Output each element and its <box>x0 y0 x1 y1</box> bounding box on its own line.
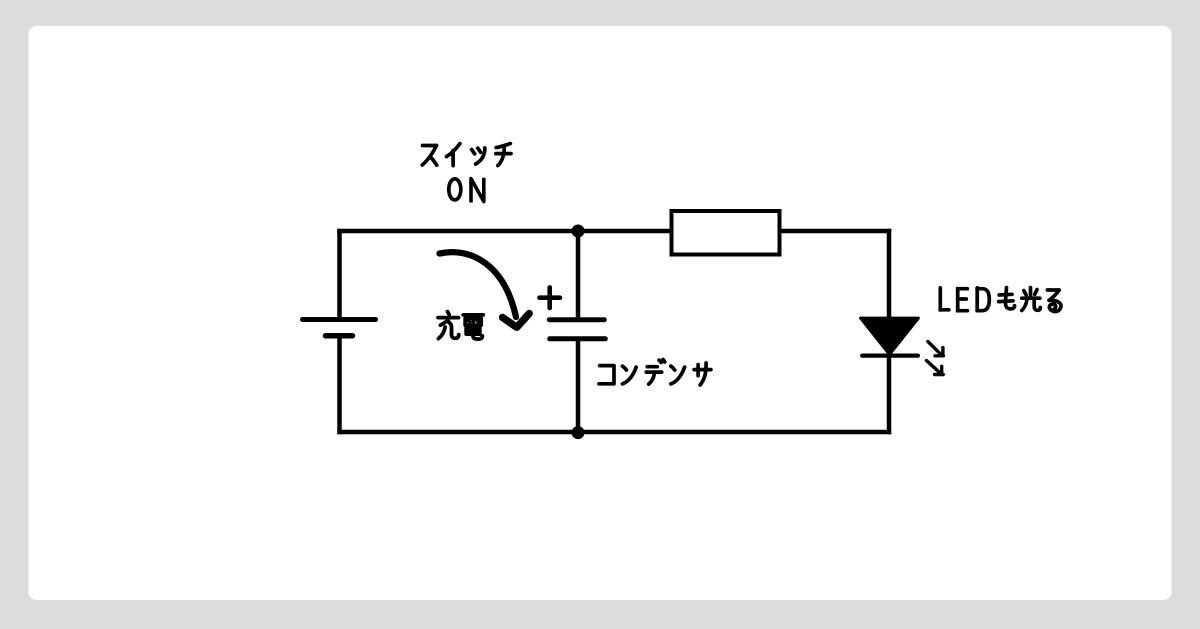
wire capacitor upper <box>576 231 581 317</box>
label "LEDも光る" (LED lights up) <box>940 288 1061 312</box>
resistor R <box>672 211 780 255</box>
LED cathode bar <box>862 354 918 358</box>
wire left lower <box>337 338 342 434</box>
battery <box>303 320 376 336</box>
charge current arrow (curved) <box>440 252 530 327</box>
capacitor polarity plus <box>540 287 561 308</box>
capacitor C (コンデンサ) <box>549 320 605 339</box>
wire right upper <box>887 229 892 320</box>
LED light ray arrow 1 <box>928 342 944 356</box>
wire bottom <box>337 430 891 435</box>
label "充電" (charging) <box>438 312 483 340</box>
LED D1 diode triangle <box>861 318 919 354</box>
node junction bottom <box>572 426 585 439</box>
wire right lower <box>887 356 892 435</box>
wire capacitor lower <box>576 341 581 432</box>
label "スイッチ" (switch) <box>422 144 511 166</box>
node junction top <box>572 225 585 238</box>
wire top <box>337 229 891 234</box>
label "コンデンサ" (capacitor) <box>599 360 711 386</box>
wire left upper <box>337 229 342 318</box>
LED light ray arrow 2 <box>927 361 944 375</box>
label "ON" <box>449 178 484 203</box>
